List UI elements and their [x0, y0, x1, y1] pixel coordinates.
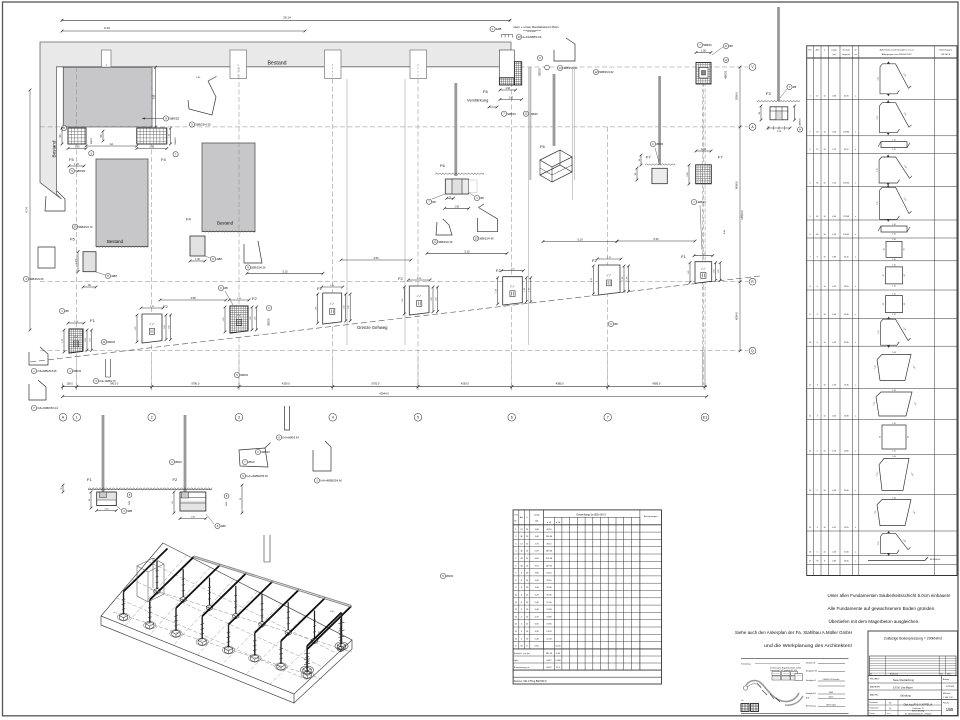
svg-text:5Ø8/25/4.62: 5Ø8/25/4.62: [599, 70, 614, 74]
svg-text:Länge: Länge: [534, 515, 541, 517]
steel list table: [513, 510, 661, 684]
title block: [868, 631, 958, 716]
svg-text:Ø8: Ø8: [65, 309, 69, 313]
svg-text:2.46: 2.46: [832, 384, 836, 386]
svg-text:1.15: 1.15: [877, 168, 879, 172]
svg-text:90: 90: [884, 248, 886, 250]
svg-text:Gesamtl: Gesamtl: [843, 49, 851, 52]
svg-text:BAUTEIL:: BAUTEIL:: [870, 694, 879, 697]
svg-text:189.36: 189.36: [843, 183, 849, 185]
svg-text:4.06: 4.06: [832, 314, 836, 316]
svg-text:1.44: 1.44: [892, 390, 896, 392]
F6 verst rot label: [537, 55, 542, 60]
svg-text:16: 16: [809, 551, 811, 553]
elevation mini dims: [62, 485, 64, 492]
svg-text:23.80: 23.80: [844, 450, 849, 452]
title project rows: [868, 675, 958, 677]
svg-text:F4: F4: [186, 217, 191, 222]
label 12v: [523, 111, 528, 116]
svg-text:Summe L.p.a (m): Summe L.p.a (m): [514, 653, 530, 655]
svg-text:Pos.: Pos.: [515, 515, 520, 517]
overall dim: [63, 396, 707, 398]
svg-text:F4: F4: [161, 157, 166, 162]
svg-text:1.10: 1.10: [892, 293, 896, 295]
wall line b: [404, 79, 406, 345]
grid bubble row: [59, 414, 67, 422]
dim 5.10 / 5.30 upper: [543, 241, 617, 243]
left bottom labels: [67, 368, 72, 373]
svg-text:6Ø8/20: 6Ø8/20: [107, 341, 116, 344]
footing F2 f: [598, 265, 620, 295]
svg-text:4Ø8/20: 4Ø8/20: [800, 118, 802, 126]
svg-text:1.10: 1.10: [892, 224, 896, 226]
svg-text:Beteiligte B: Beteiligte B: [806, 679, 816, 682]
svg-text:5.26: 5.26: [832, 183, 836, 185]
svg-text:48: 48: [816, 216, 818, 218]
svg-text:1.580: 1.580: [555, 660, 561, 662]
footing F1 left: [69, 329, 83, 353]
isometric slab: [101, 543, 352, 694]
svg-text:Plan-Nr: Plan-Nr: [943, 703, 949, 705]
svg-text:1.10: 1.10: [892, 265, 896, 267]
svg-text:10: 10: [824, 490, 826, 492]
svg-text:54.00: 54.00: [844, 561, 849, 563]
dims F5F4 row: [68, 148, 86, 150]
Bestand block 3: [202, 143, 255, 232]
E3 axis solid: [702, 351, 704, 386]
svg-text:[m]: [m]: [535, 521, 538, 523]
svg-text:PROJEKT:: PROJEKT:: [870, 679, 880, 681]
svg-text:1.30: 1.30: [75, 146, 80, 149]
svg-text:6: 6: [511, 416, 513, 420]
svg-text:Ø8 GEW=60: Ø8 GEW=60: [930, 559, 940, 561]
svg-text:3.46: 3.46: [832, 132, 836, 134]
svg-text:1.15: 1.15: [878, 77, 880, 81]
svg-text:F3: F3: [766, 91, 771, 96]
label 2 f2a: [255, 449, 260, 454]
svg-text:Bestand: Bestand: [217, 221, 234, 226]
svg-text:3500.0: 3500.0: [735, 91, 739, 99]
svg-text:2.30: 2.30: [149, 146, 154, 149]
svg-text:103 Funden: 103 Funden: [826, 705, 836, 707]
svg-text:1: 1: [76, 416, 78, 420]
svg-text:3: 3: [238, 416, 240, 420]
steel column F6: [553, 74, 556, 146]
svg-text:10: 10: [824, 257, 826, 259]
svg-text:6: 6: [809, 234, 810, 236]
svg-text:1.10: 1.10: [892, 139, 896, 141]
footing F2 b: [230, 306, 248, 333]
label 5 rot pad: [266, 305, 271, 310]
svg-text:15B: 15B: [946, 707, 954, 712]
svg-text:23.16: 23.16: [546, 573, 552, 575]
svg-text:14: 14: [558, 66, 562, 70]
svg-text:Statigkeit B: Statigkeit B: [806, 692, 816, 695]
svg-text:86925 Kissing: 86925 Kissing: [912, 711, 924, 713]
isometric inner dashed: [148, 561, 338, 653]
svg-text:4.58: 4.58: [190, 296, 196, 300]
svg-text:4Ø8: 4Ø8: [221, 524, 226, 528]
svg-text:F5: F5: [69, 157, 74, 162]
svg-text:103.80: 103.80: [546, 536, 553, 538]
svg-text:Ø8: Ø8: [480, 196, 484, 200]
svg-text:1.44: 1.44: [892, 456, 896, 458]
svg-text:3.86: 3.86: [832, 257, 836, 259]
svg-text:13.26: 13.26: [844, 527, 849, 529]
rebar schedule table: [807, 46, 957, 576]
svg-text:4.46: 4.46: [832, 415, 836, 417]
svg-text:Maßstab: Maßstab: [943, 692, 950, 695]
svg-text:500m: 500m: [829, 697, 834, 699]
F6 verst hatch: [499, 50, 514, 78]
svg-text:8: 8: [824, 561, 825, 563]
svg-text:3Ø8/25/4.42: 3Ø8/25/4.42: [563, 66, 578, 70]
site sketch: [741, 657, 849, 659]
svg-text:F6: F6: [540, 144, 545, 149]
bar slim vertical: [285, 406, 290, 430]
F7 right hatch top: [696, 63, 711, 85]
grid lines vertical: [76, 67, 78, 385]
bar sketch F4 right: [244, 241, 262, 263]
svg-text:1.90: 1.90: [701, 148, 706, 151]
svg-text:Ø8: Ø8: [793, 85, 797, 89]
svg-text:14500.0: 14500.0: [740, 210, 744, 220]
isometric frames: [119, 613, 127, 618]
isometric dashed rows: [113, 612, 322, 679]
svg-text:4.76: 4.76: [832, 450, 836, 452]
steel column b: [529, 67, 531, 180]
svg-text:12: 12: [433, 240, 437, 244]
ground hatch line: [88, 488, 212, 490]
svg-text:F7: F7: [646, 155, 651, 160]
footing F2 a: [142, 314, 162, 343]
svg-text:Anz: Anz: [520, 516, 524, 519]
svg-text:Straßen Nr: Straßen Nr: [806, 662, 816, 665]
label 12f3 rotated: [723, 57, 728, 62]
svg-text:4.42: 4.42: [832, 527, 836, 529]
svg-text:4500.0: 4500.0: [735, 311, 739, 319]
svg-text:Ø8/25: Ø8/25: [91, 137, 93, 144]
svg-text:BAUHERR:: BAUHERR:: [870, 686, 881, 689]
svg-text:Ø8/20: Ø8/20: [656, 142, 664, 146]
svg-text:42944.0: 42944.0: [379, 392, 389, 396]
svg-text:0.617: 0.617: [546, 660, 552, 662]
label 13m: [473, 236, 478, 241]
bar sketch label 5: [189, 122, 194, 127]
svg-text:F6: F6: [440, 163, 445, 168]
svg-text:a.a.r: a.a.r: [887, 713, 891, 715]
grid bubbles right: [749, 64, 756, 71]
svg-text:6+6+36Ø8/20/5.26: 6+6+36Ø8/20/5.26: [246, 474, 268, 478]
svg-text:10: 10: [824, 527, 826, 529]
svg-text:606.2: 606.2: [546, 667, 552, 669]
Bestand block 2: [96, 159, 148, 247]
svg-text:13: 13: [517, 35, 521, 39]
svg-text:5Ø8/20: 5Ø8/20: [269, 318, 271, 326]
svg-text:1.40: 1.40: [195, 258, 200, 261]
label 13t: [516, 34, 521, 39]
svg-text:Verstärkung: Verstärkung: [467, 98, 488, 103]
svg-text:1.15: 1.15: [877, 116, 879, 120]
svg-text:Bemerkungen: Bemerkungen: [940, 50, 952, 52]
svg-text:0.60: 0.60: [832, 561, 836, 563]
footing F2 e: [503, 277, 523, 305]
svg-text:5: 5: [817, 551, 818, 553]
svg-text:Ø8/20: Ø8/20: [446, 574, 454, 578]
svg-text:und die Werkplanung des Archit: und die Werkplanung des Architekten!: [764, 643, 852, 648]
svg-text:6+8+6Ø8/3.54: 6+8+6Ø8/3.54: [282, 436, 299, 440]
column box 1: [230, 50, 247, 79]
svg-text:90: 90: [908, 436, 910, 438]
svg-text:1.44: 1.44: [892, 497, 896, 499]
svg-text:F1: F1: [90, 318, 95, 323]
svg-text:Abbiegungen nach DIN-262-1012: Abbiegungen nach DIN-262-1012: [882, 53, 913, 56]
svg-text:Bemerkungen: Bemerkungen: [644, 515, 658, 518]
svg-text:5: 5: [809, 216, 810, 218]
svg-text:33.12: 33.12: [546, 543, 552, 545]
svg-text:4.55: 4.55: [373, 256, 379, 260]
svg-text:1.10: 1.10: [892, 234, 896, 236]
svg-text:Bestand: Bestand: [267, 61, 286, 67]
svg-text:4.36: 4.36: [832, 286, 836, 288]
dim 4.58: [160, 299, 226, 301]
svg-text:1.15: 1.15: [877, 202, 879, 206]
svg-text:3: 3: [809, 149, 810, 151]
svg-text:150.0: 150.0: [66, 382, 73, 386]
svg-text:13: 13: [474, 237, 478, 241]
svg-text:1.44: 1.44: [892, 352, 896, 354]
dim 4.55: [341, 259, 411, 261]
steel column a: [454, 83, 457, 176]
svg-text:6: 6: [817, 342, 818, 344]
svg-text:F1: F1: [87, 477, 92, 482]
svg-text:5: 5: [417, 416, 419, 420]
svg-text:Q: Q: [751, 349, 754, 353]
E3 grid dashes: [701, 83, 703, 352]
svg-text:1.10: 1.10: [892, 423, 896, 425]
svg-text:30: 30: [816, 132, 818, 134]
svg-text:223.68: 223.68: [546, 558, 553, 560]
svg-text:al an mile: al an mile: [527, 31, 536, 33]
svg-text:3.54: 3.54: [832, 234, 836, 236]
svg-text:4Ø8: 4Ø8: [127, 509, 132, 513]
column box 0: [102, 50, 112, 79]
svg-text:1.90: 1.90: [508, 97, 513, 100]
grid extension lines: [76, 355, 78, 387]
svg-text:4385.0: 4385.0: [556, 382, 564, 386]
svg-text:Länge: Länge: [831, 50, 836, 52]
svg-text:2x6+13Ø8/2.76: 2x6+13Ø8/2.76: [99, 380, 116, 383]
svg-text:[m]: [m]: [833, 54, 836, 56]
F2 elevation column: [184, 415, 187, 492]
svg-text:1.90: 1.90: [505, 87, 510, 90]
F1 elevation column: [102, 415, 105, 492]
wall line a: [346, 79, 348, 345]
svg-text:6: 6: [817, 314, 818, 316]
label 7L: [31, 405, 36, 410]
svg-text:24.36: 24.36: [546, 587, 552, 589]
svg-text:S.K.M. Lina Mayer: S.K.M. Lina Mayer: [893, 687, 913, 690]
steel column F3: [777, 7, 780, 101]
svg-text:44.16: 44.16: [844, 95, 849, 97]
rot label right of F4: [173, 152, 178, 157]
svg-text:9000.0: 9000.0: [735, 180, 739, 188]
svg-text:Grenze Gehweg: Grenze Gehweg: [357, 325, 388, 330]
svg-text:1: 1: [809, 95, 810, 97]
svg-text:189.36: 189.36: [546, 551, 553, 553]
label 12r: [593, 69, 598, 74]
svg-text:Bemerkung: Bemerkung: [806, 705, 816, 708]
svg-text:Ø8/20: Ø8/20: [248, 461, 255, 464]
svg-text:12.30: 12.30: [844, 551, 849, 553]
footing F1 right: [695, 262, 712, 284]
svg-text:oben + unten Randabstand 15cm: oben + unten Randabstand 15cm: [513, 25, 559, 29]
svg-text:10: 10: [809, 342, 811, 344]
svg-text:Datum: Datum: [870, 712, 876, 715]
svg-text:F2: F2: [398, 276, 403, 281]
svg-text:E3: E3: [703, 416, 707, 420]
label 7 f1 right: [691, 199, 696, 204]
svg-text:Tel. 08233-8556/13/49 - 796304: Tel. 08233-8556/13/49 - 7963040: [905, 714, 931, 716]
svg-text:Gründung: Gründung: [900, 695, 911, 698]
svg-text:Anz: Anz: [816, 49, 819, 52]
svg-text:10: 10: [824, 132, 826, 134]
svg-text:4Ø8/20: 4Ø8/20: [725, 70, 728, 79]
svg-text:dir: dir: [855, 49, 857, 52]
svg-text:4Ø8: 4Ø8: [216, 257, 222, 261]
steel column F7: [658, 76, 661, 165]
top dim 29.14: [62, 19, 510, 21]
svg-text:5Ø8/25: 5Ø8/25: [507, 112, 516, 116]
bar pent mid2: [313, 441, 331, 471]
svg-text:3x6+30Ø8/25/3.44: 3x6+30Ø8/25/3.44: [37, 407, 58, 410]
svg-text:9.74: 9.74: [25, 207, 29, 213]
svg-text:Ø8: Ø8: [224, 286, 228, 290]
svg-text:31.80: 31.80: [844, 490, 849, 492]
svg-text:90: 90: [904, 274, 906, 276]
svg-text:6Ø8/20: 6Ø8/20: [240, 374, 249, 377]
svg-text:Neue Überdachung: Neue Überdachung: [893, 679, 914, 682]
label 4L: [23, 276, 28, 281]
svg-text:4+4/16Ø8/2.63: 4+4/16Ø8/2.63: [522, 35, 542, 39]
svg-text:5Ø8/25: 5Ø8/25: [169, 117, 179, 121]
svg-text:6.36: 6.36: [832, 490, 836, 492]
bar sketch top-left: [188, 81, 216, 115]
svg-text:90: 90: [816, 561, 818, 563]
svg-text:1.10: 1.10: [892, 451, 896, 453]
svg-text:6Ø8/25/4.06: 6Ø8/25/4.06: [29, 277, 44, 281]
svg-text:103.80: 103.80: [843, 132, 849, 134]
svg-text:12.30: 12.30: [844, 384, 849, 386]
svg-text:länge [m]: länge [m]: [842, 54, 850, 56]
svg-text:1.15: 1.15: [878, 542, 880, 546]
svg-text:10: 10: [824, 95, 826, 97]
svg-text:Bearbeitet: Bearbeitet: [870, 701, 879, 704]
svg-text:4Ø8: 4Ø8: [496, 27, 502, 31]
svg-text:10: 10: [824, 314, 826, 316]
svg-text:10: 10: [824, 342, 826, 344]
svg-text:3Ø8/25/2.46: 3Ø8/25/2.46: [438, 240, 453, 244]
svg-text:Alle Fundamente auf gewachsene: Alle Fundamente auf gewachsenem Boden gr…: [828, 606, 936, 611]
svg-text:13.26: 13.26: [546, 631, 552, 633]
slim bar sketch f1: [106, 359, 111, 377]
label 6 5o8/25: [163, 116, 168, 121]
label 5 f2mid: [440, 573, 445, 578]
svg-text:4: 4: [332, 416, 334, 420]
svg-text:31.80: 31.80: [546, 624, 552, 626]
footing hatch F5: [68, 128, 86, 144]
svg-text:F1: F1: [681, 254, 686, 259]
comb symbol: [502, 34, 513, 37]
label 6m: [276, 435, 281, 440]
svg-text:5750.0: 5750.0: [371, 382, 379, 386]
svg-text:Gesamtlänge [m] BSt 500 S: Gesamtlänge [m] BSt 500 S: [576, 514, 606, 517]
svg-text:Außenmaße und Innenradien in c: Außenmaße und Innenradien in cm+m: [880, 49, 915, 52]
svg-text:EN ISO B: EN ISO B: [941, 54, 950, 56]
dim 5.15: [247, 272, 323, 274]
svg-text:12: 12: [524, 112, 528, 116]
svg-text:29.14: 29.14: [283, 15, 291, 19]
svg-text:5: 5: [817, 490, 818, 492]
dim 5.10: [427, 252, 507, 254]
isometric end portal: [307, 613, 342, 647]
label 5t: [490, 26, 495, 31]
grid lines horizontal: [40, 126, 748, 128]
bar sketch top mid: [554, 38, 575, 61]
F7 right hatch bottom: [696, 165, 712, 184]
svg-text:2.46: 2.46: [832, 551, 836, 553]
bar pent left low2: [29, 380, 46, 400]
svg-text:7: 7: [607, 416, 609, 420]
svg-text:Gezeichnet: Gezeichnet: [870, 707, 880, 710]
rot label between hatches: [89, 151, 94, 156]
svg-text:5Ø8/20: 5Ø8/20: [703, 43, 712, 47]
svg-text:6Ø8/25: 6Ø8/25: [75, 169, 85, 173]
Bestand block 1: [63, 67, 152, 127]
svg-text:11: 11: [103, 340, 106, 344]
bar sketch left F5: [45, 191, 65, 211]
label 8f3: [723, 43, 728, 48]
column box 2: [325, 50, 342, 79]
svg-text:1x1: 1x1: [109, 143, 114, 146]
svg-text:26.16: 26.16: [546, 580, 552, 582]
isometric annex box: [137, 558, 164, 572]
svg-text:Übertiefen mit dem Magerbeton: Übertiefen mit dem Magerbeton ausgleiche…: [829, 619, 920, 624]
svg-text:3: 3: [817, 384, 818, 386]
svg-text:F2: F2: [252, 296, 257, 301]
svg-text:Ø8: Ø8: [432, 200, 436, 204]
svg-text:90: 90: [880, 436, 882, 438]
svg-text:3.68: 3.68: [832, 95, 836, 97]
svg-text:Dipl.Ing.(FH) S.APPELIA: Dipl.Ing.(FH) S.APPELIA: [904, 703, 933, 707]
svg-text:14: 14: [809, 490, 811, 492]
svg-text:23.16: 23.16: [844, 257, 849, 259]
svg-text:4.66: 4.66: [832, 216, 836, 218]
bar quad mid: [239, 448, 268, 467]
svg-text:4250.0: 4250.0: [461, 382, 469, 386]
svg-text:10: 10: [824, 234, 826, 236]
svg-text:5Ø8/25: 5Ø8/25: [540, 68, 542, 76]
left dim chain: [29, 90, 31, 330]
svg-text:1.50: 1.50: [454, 205, 459, 208]
svg-text:2: 2: [151, 416, 153, 420]
svg-text:F2: F2: [173, 477, 178, 482]
svg-text:Auftrag: Auftrag: [943, 678, 949, 681]
label 14t: [557, 65, 562, 70]
svg-text:Ø8/20: Ø8/20: [175, 461, 182, 464]
svg-text:Summierung p.a: Summierung p.a: [514, 666, 530, 669]
svg-text:F2: F2: [163, 304, 168, 309]
